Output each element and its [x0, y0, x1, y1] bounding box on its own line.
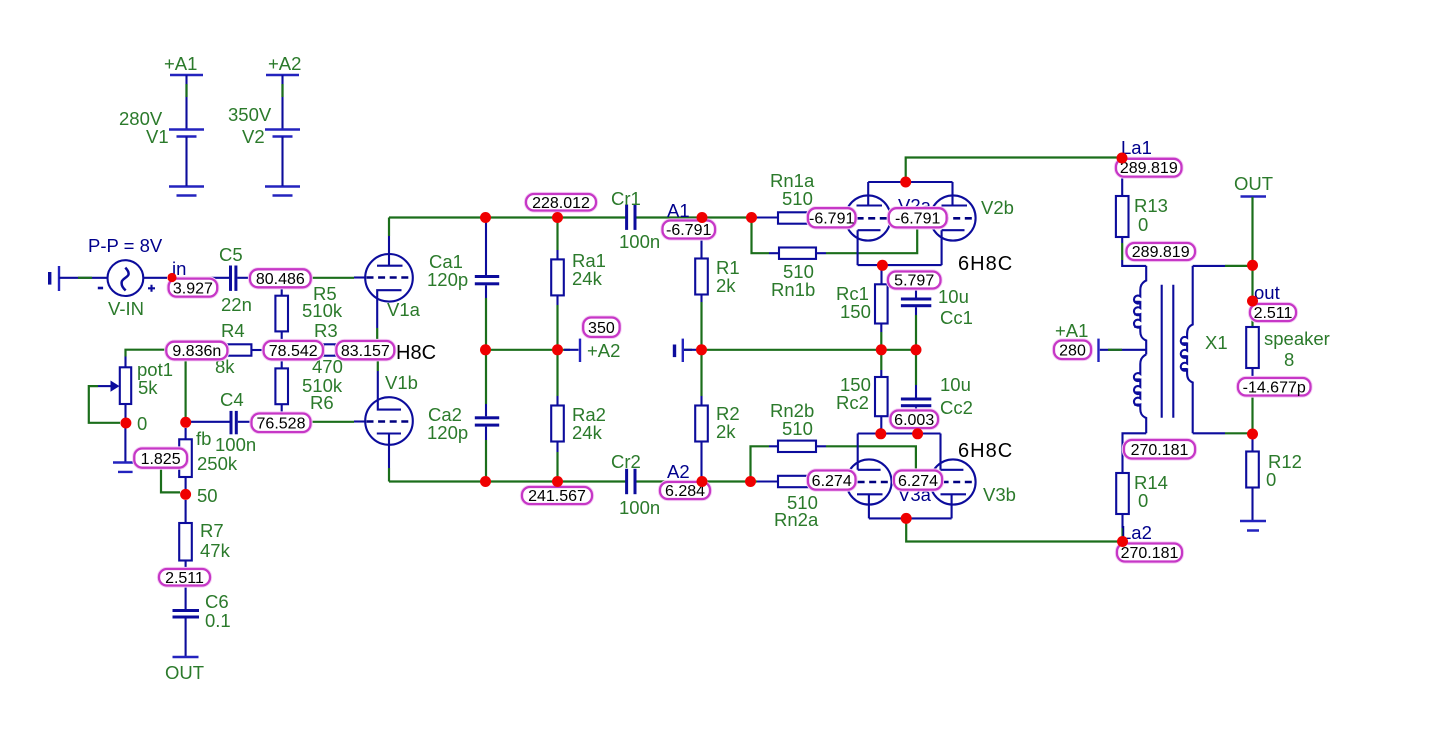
svg-text:C6: C6	[205, 591, 229, 612]
node voltage box 280	[1054, 341, 1091, 360]
svg-text:0: 0	[137, 413, 147, 434]
svg-text:10u: 10u	[940, 374, 971, 395]
svg-text:9.836n: 9.836n	[172, 343, 221, 360]
capacitor Ca2	[427, 350, 499, 482]
node 50 junction	[180, 489, 191, 500]
svg-text:150: 150	[840, 301, 871, 322]
tie +A2	[564, 339, 620, 362]
resistor R2	[695, 350, 739, 482]
svg-text:A2: A2	[667, 461, 690, 482]
wire bottom rail after Cr2 to A2 and Rn2a	[636, 480, 757, 482]
wire out node	[1251, 265, 1253, 301]
wire transformer secondary bottom	[1193, 432, 1225, 434]
svg-text:120p: 120p	[427, 422, 468, 443]
transformer X1	[1134, 266, 1228, 433]
svg-text:0: 0	[1266, 469, 1276, 490]
resistor R13	[1116, 179, 1168, 266]
triode V1a	[354, 218, 421, 342]
svg-text:3.927: 3.927	[173, 280, 213, 297]
terminal OUT top	[1234, 173, 1273, 265]
svg-text:100n: 100n	[215, 434, 256, 455]
svg-text:C5: C5	[219, 244, 243, 265]
svg-text:100n: 100n	[619, 497, 660, 518]
wire top rail node 228.012	[389, 216, 626, 218]
wire C4 row to V1b grid	[312, 421, 355, 423]
svg-text:5k: 5k	[138, 377, 158, 398]
resistor R14	[1116, 433, 1168, 541]
svg-text:H8C: H8C	[396, 342, 436, 364]
terminal OUT bottom	[165, 657, 204, 683]
svg-text:289.819: 289.819	[1132, 244, 1190, 261]
node voltage box 3.927	[169, 279, 218, 298]
junction top rail Ca1	[480, 212, 491, 223]
node voltage box 78.542	[264, 341, 323, 360]
junction bottom rail Ca2	[480, 476, 491, 487]
node voltage box 6.274 V3a	[808, 471, 856, 490]
wire V2 anodes to La1 row	[906, 158, 1122, 183]
junction bottom rail Ra2	[552, 476, 563, 487]
node voltage box 2.511 left	[159, 569, 210, 587]
triode V2a	[845, 182, 891, 265]
ground at pot	[113, 428, 136, 472]
wire Rn2b to V3b grid	[826, 446, 916, 472]
svg-text:C4: C4	[220, 389, 244, 410]
svg-text:R13: R13	[1134, 195, 1168, 216]
junction V3 cathodes Rc2	[875, 428, 886, 439]
svg-text:Rc2: Rc2	[836, 392, 869, 413]
svg-text:-6.791: -6.791	[809, 211, 854, 228]
node voltage box 6.003	[891, 411, 939, 429]
triode V3a	[846, 434, 892, 519]
svg-text:6H8C: 6H8C	[958, 253, 1013, 275]
junction V2 cathodes	[877, 260, 888, 271]
resistor Ra1	[551, 218, 606, 350]
node voltage box -14.677p	[1238, 378, 1311, 396]
junction mid rail Cc	[911, 344, 922, 355]
svg-text:-6.791: -6.791	[895, 211, 940, 228]
svg-text:120p: 120p	[427, 269, 468, 290]
junction mid rail Ra	[552, 344, 563, 355]
svg-text:78.542: 78.542	[269, 343, 318, 360]
svg-text:OUT: OUT	[1234, 173, 1273, 194]
svg-text:Rn1b: Rn1b	[771, 279, 815, 300]
svg-text:+A1: +A1	[164, 53, 197, 74]
wire bottom rail node 241.567	[389, 480, 626, 482]
wire Rn1b to V2b grid	[826, 227, 917, 253]
node voltage box 83.157	[336, 341, 394, 360]
node voltage box 9.836n	[166, 342, 227, 360]
triode V3b	[930, 434, 976, 519]
svg-text:V1b: V1b	[385, 372, 418, 393]
wire node A2 to Rn2b	[751, 446, 770, 481]
input tie terminal	[48, 266, 107, 291]
svg-text:6.274: 6.274	[898, 473, 938, 490]
svg-text:0.1: 0.1	[205, 610, 231, 631]
node voltage box 6.274 V3b	[894, 471, 942, 490]
svg-text:228.012: 228.012	[532, 195, 590, 212]
svg-text:+A2: +A2	[268, 53, 301, 74]
resistor R4	[215, 320, 264, 377]
junction node A1 Rn1	[746, 212, 757, 223]
svg-text:Cr1: Cr1	[611, 188, 641, 209]
wire V3 anodes to La2 row	[906, 518, 1122, 541]
node voltage box 76.528	[252, 414, 311, 433]
junction secondary bottom	[1247, 429, 1258, 440]
wire A1 node to Rn1b	[752, 218, 770, 254]
triode V2b	[930, 182, 976, 265]
junction mid rail R1R2	[696, 344, 707, 355]
svg-text:2k: 2k	[716, 275, 736, 296]
svg-text:80.486: 80.486	[256, 271, 305, 288]
svg-text:Cc1: Cc1	[940, 307, 973, 328]
svg-text:100n: 100n	[619, 231, 660, 252]
wire speaker to R12	[1251, 396, 1253, 435]
capacitor Ca1	[427, 219, 499, 350]
resistor Rn1a	[770, 170, 846, 224]
node voltage box -6.791 V2a	[808, 208, 856, 227]
capacitor C5	[177, 244, 252, 315]
svg-text:A1: A1	[667, 200, 690, 221]
junction node La2	[1117, 536, 1128, 547]
node voltage box -6.791 V2b	[889, 208, 947, 227]
svg-text:R7: R7	[200, 520, 224, 541]
svg-text:V2: V2	[242, 126, 265, 147]
node voltage box 2.511 right	[1250, 304, 1296, 322]
svg-text:R3: R3	[314, 320, 338, 341]
wire V3 anode bottom line	[869, 517, 952, 519]
svg-text:270.181: 270.181	[1121, 545, 1179, 562]
svg-text:V2b: V2b	[981, 197, 1014, 218]
node voltage box 5.797	[888, 272, 941, 290]
node voltage box 350	[583, 318, 619, 337]
junction mid rail Ca	[480, 344, 491, 355]
resistor Rn2b	[770, 400, 826, 452]
svg-text:R4: R4	[221, 320, 245, 341]
svg-text:270.181: 270.181	[1131, 442, 1189, 459]
resistor Rn1b	[771, 248, 826, 301]
resistor R3	[312, 320, 343, 377]
svg-text:510: 510	[782, 418, 813, 439]
tie I at R1/R2	[673, 339, 697, 362]
potentiometer pot1	[89, 357, 173, 423]
wire fb node vertical	[185, 359, 187, 418]
svg-text:1.825: 1.825	[141, 451, 181, 468]
capacitor C4	[191, 389, 251, 434]
node voltage box A1 -6.791	[663, 221, 716, 240]
svg-text:350: 350	[588, 320, 615, 337]
node voltage box 1.825	[134, 449, 187, 468]
resistor speaker	[1246, 327, 1330, 378]
svg-text:0: 0	[1138, 214, 1148, 235]
svg-text:2.511: 2.511	[1254, 305, 1293, 322]
svg-text:47k: 47k	[200, 540, 231, 561]
svg-text:510: 510	[782, 188, 813, 209]
node voltage box 270.181 lower	[1117, 544, 1182, 563]
svg-text:280: 280	[1059, 343, 1086, 360]
junction node A2 Rn2	[745, 476, 756, 487]
node fb top junction	[180, 417, 191, 428]
wire V3 cathode top line	[858, 428, 941, 434]
wire fb node to pot top	[126, 350, 167, 357]
wire top rail after Cr1 to A1 and Rn1a	[636, 216, 757, 218]
svg-text:Cr2: Cr2	[611, 451, 641, 472]
node voltage box 289.819 top	[1116, 159, 1182, 177]
svg-text:24k: 24k	[572, 422, 603, 443]
battery V1	[119, 53, 204, 196]
triode V1b	[354, 360, 418, 482]
node voltage box 6.284	[660, 482, 710, 500]
svg-text:2.511: 2.511	[165, 570, 204, 587]
resistor Ra2	[551, 350, 606, 482]
capacitor Cr2	[611, 451, 660, 518]
svg-text:speaker: speaker	[1264, 328, 1330, 349]
junction V3 cathodes Cc2	[912, 428, 923, 439]
svg-text:350V: 350V	[228, 104, 272, 125]
ground at R12	[1240, 521, 1266, 531]
svg-text:250k: 250k	[197, 453, 238, 474]
svg-text:8: 8	[1284, 349, 1294, 370]
node voltage box 228.012	[526, 194, 596, 212]
svg-text:76.528: 76.528	[257, 416, 306, 433]
svg-text:X1: X1	[1205, 332, 1228, 353]
svg-text:241.567: 241.567	[528, 488, 586, 505]
svg-text:V3b: V3b	[983, 484, 1016, 505]
capacitor Cc1	[901, 286, 973, 350]
svg-text:50: 50	[197, 485, 218, 506]
svg-text:289.819: 289.819	[1120, 160, 1178, 177]
junction node A2	[697, 476, 708, 487]
svg-text:OUT: OUT	[165, 662, 204, 683]
svg-text:24k: 24k	[572, 268, 603, 289]
svg-text:V1a: V1a	[387, 299, 421, 320]
resistor R1	[695, 218, 739, 350]
wire La1 to R13	[1121, 158, 1123, 161]
svg-text:10u: 10u	[938, 286, 969, 307]
tie +A1 at transformer	[1055, 320, 1146, 362]
svg-text:fb: fb	[196, 428, 211, 449]
junction node A1	[697, 212, 708, 223]
junction node La1	[1117, 153, 1128, 164]
svg-text:V1: V1	[146, 126, 169, 147]
capacitor Cr1	[611, 188, 660, 252]
resistor R12	[1246, 451, 1302, 521]
wire in row to V1a grid	[311, 277, 354, 279]
node in junction	[167, 273, 176, 282]
node 0 junction	[120, 418, 131, 429]
svg-text:+A1: +A1	[1055, 320, 1088, 341]
resistor Rn2a	[774, 476, 846, 530]
svg-text:-14.677p: -14.677p	[1243, 379, 1306, 396]
svg-text:6.003: 6.003	[894, 412, 934, 429]
resistor R5	[275, 283, 342, 340]
source V-IN	[88, 235, 167, 319]
node voltage box 241.567	[522, 487, 592, 505]
resistor R7	[179, 500, 230, 569]
svg-text:Cc2: Cc2	[940, 397, 973, 418]
junction V3 anodes	[901, 513, 912, 524]
node voltage box 270.181 upper	[1124, 440, 1195, 459]
capacitor C6	[173, 586, 231, 658]
junction mid rail Rc	[876, 344, 887, 355]
svg-text:R6: R6	[310, 392, 334, 413]
junction V2 anodes	[900, 177, 911, 188]
svg-text:V-IN: V-IN	[108, 298, 144, 319]
svg-text:83.157: 83.157	[341, 343, 390, 360]
junction secondary top	[1247, 260, 1258, 271]
wire transformer secondary top to out node	[1193, 265, 1225, 267]
resistor fb 250k	[179, 428, 256, 489]
wire mid rail +A2	[486, 349, 570, 351]
svg-text:0: 0	[1138, 490, 1148, 511]
resistor R6	[275, 359, 342, 413]
svg-text:2k: 2k	[716, 421, 736, 442]
wire V2 cathode bottom line	[858, 264, 942, 266]
svg-text:P-P = 8V: P-P = 8V	[88, 235, 163, 256]
battery V2	[228, 53, 301, 196]
svg-text:Rn2a: Rn2a	[774, 509, 819, 530]
svg-text:510k: 510k	[302, 300, 343, 321]
node voltage box 80.486	[250, 269, 311, 288]
svg-text:5.797: 5.797	[894, 273, 934, 290]
junction top rail Ra1	[552, 212, 563, 223]
svg-text:-6.791: -6.791	[666, 222, 711, 239]
node voltage box 289.819 mid	[1127, 243, 1196, 261]
resistor Rc1	[836, 265, 888, 350]
svg-text:6H8C: 6H8C	[958, 440, 1013, 462]
wire V2 anode top line	[868, 181, 952, 183]
wire ground to node 50	[161, 467, 180, 492]
svg-text:22n: 22n	[221, 294, 252, 315]
resistor Rc2	[836, 350, 888, 434]
junction node out	[1247, 296, 1258, 307]
capacitor Cc2	[901, 350, 973, 418]
svg-text:6.274: 6.274	[812, 473, 852, 490]
svg-text:+A2: +A2	[587, 340, 620, 361]
